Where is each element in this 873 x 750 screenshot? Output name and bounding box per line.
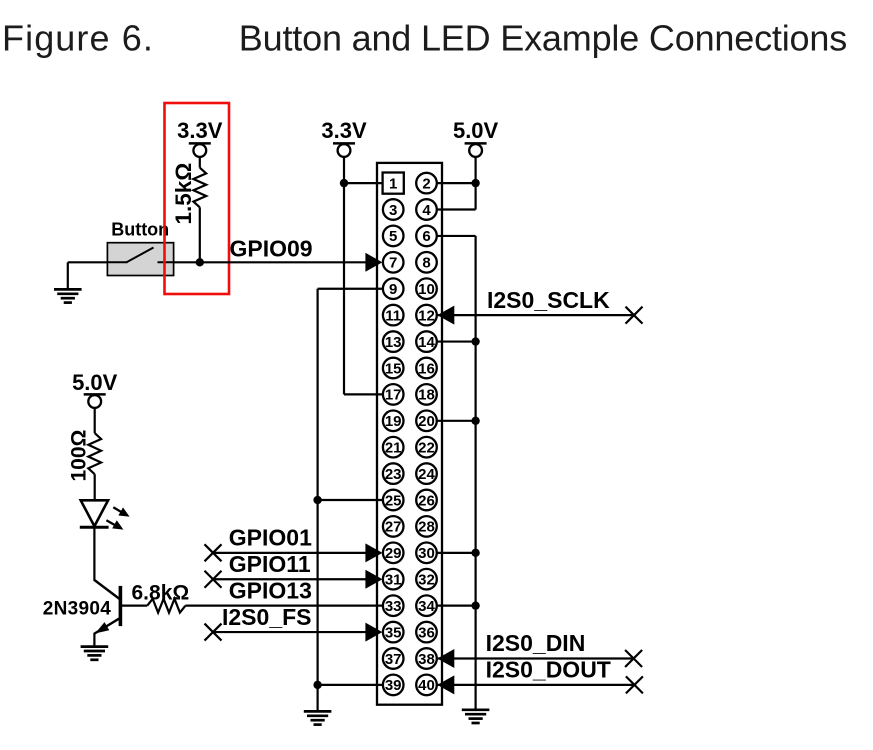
- svg-text:30: 30: [418, 545, 435, 562]
- svg-text:GPIO09: GPIO09: [230, 236, 313, 262]
- ground (right rail): [462, 708, 490, 711]
- svg-text:2N3904: 2N3904: [43, 598, 111, 619]
- svg-text:7: 7: [389, 255, 397, 272]
- svg-text:14: 14: [418, 334, 435, 351]
- junction pin14: [471, 337, 479, 345]
- pin 13: [383, 331, 404, 352]
- junction pin20: [471, 417, 479, 425]
- svg-text:34: 34: [418, 598, 435, 615]
- pin 31: [383, 569, 404, 590]
- wire left ground rail (pins 9,25,39): [318, 288, 384, 290]
- net I2S0_DOUT to pin 40: [438, 684, 635, 686]
- svg-text:4: 4: [422, 202, 431, 219]
- pin 24: [416, 463, 437, 484]
- wire R2 to LED: [94, 474, 96, 500]
- svg-text:100Ω: 100Ω: [67, 430, 90, 482]
- pin 36: [416, 622, 437, 643]
- wire 3.3V to R1: [199, 157, 201, 168]
- svg-text:33: 33: [385, 598, 402, 615]
- pin 38: [416, 648, 437, 669]
- junction node GPIO09: [196, 258, 204, 266]
- svg-text:6.8kΩ: 6.8kΩ: [132, 581, 190, 604]
- pin 11: [383, 305, 404, 326]
- pin 32: [416, 569, 437, 590]
- pin 29: [383, 543, 404, 564]
- svg-text:3.3V: 3.3V: [321, 118, 367, 143]
- LED D1: [81, 500, 108, 526]
- svg-text:18: 18: [418, 387, 435, 404]
- wire right ground rail (pins 6,14,20,30,34): [436, 235, 476, 237]
- wire net GPIO09 to pin 7: [174, 261, 367, 263]
- svg-text:3.3V: 3.3V: [177, 118, 223, 143]
- svg-text:23: 23: [385, 466, 402, 483]
- pin 16: [416, 358, 437, 379]
- resistor R1 1.5k: [193, 168, 206, 208]
- wire 5.0V rail (pins 2,4): [475, 157, 477, 210]
- header J1 frame: [377, 163, 442, 705]
- highlight box (red) around pull-up: [165, 103, 230, 294]
- svg-text:3: 3: [389, 202, 397, 219]
- pin 26: [416, 490, 437, 511]
- wire base/R3 to pin 33: [185, 605, 383, 607]
- svg-text:I2S0_SCLK: I2S0_SCLK: [487, 287, 610, 313]
- wire 5.0V to R2: [94, 408, 96, 433]
- svg-text:Figure 6.: Figure 6.: [2, 18, 154, 59]
- svg-text:35: 35: [385, 624, 402, 641]
- pin 28: [416, 516, 437, 537]
- ground (left rail): [304, 710, 332, 713]
- svg-text:36: 36: [418, 624, 435, 641]
- pin 2: [416, 173, 437, 194]
- transistor Q1: [94, 580, 119, 599]
- svg-text:8: 8: [422, 255, 430, 272]
- net I2S0_DIN to pin 38: [438, 657, 634, 659]
- junction pin30: [471, 549, 479, 557]
- svg-text:Button: Button: [111, 220, 169, 240]
- pin 40: [416, 675, 437, 696]
- pin 17: [383, 384, 404, 405]
- pin 10: [416, 278, 437, 299]
- pin 1: [383, 173, 404, 194]
- wire emitter to ground: [93, 633, 95, 647]
- pin 9: [383, 278, 404, 299]
- svg-text:9: 9: [389, 281, 397, 298]
- pin 19: [383, 411, 404, 432]
- svg-text:27: 27: [385, 519, 402, 536]
- svg-text:19: 19: [385, 413, 402, 430]
- svg-text:5.0V: 5.0V: [72, 370, 118, 395]
- svg-text:I2S0_DIN: I2S0_DIN: [486, 630, 586, 656]
- pin 23: [383, 463, 404, 484]
- svg-text:5: 5: [389, 228, 397, 245]
- svg-text:25: 25: [385, 492, 402, 509]
- net I2S0_FS to pin 35: [213, 631, 367, 633]
- net I2S0_SCLK to pin 12: [438, 314, 635, 316]
- svg-text:20: 20: [418, 413, 435, 430]
- svg-text:39: 39: [385, 677, 402, 694]
- svg-text:GPIO11: GPIO11: [229, 551, 311, 577]
- pin 4: [416, 199, 437, 220]
- pin 34: [416, 595, 437, 616]
- pin 14: [416, 331, 437, 352]
- svg-text:32: 32: [418, 572, 435, 589]
- svg-text:1: 1: [389, 175, 397, 192]
- svg-text:38: 38: [418, 651, 435, 668]
- svg-text:6: 6: [422, 228, 430, 245]
- ground (button): [54, 288, 82, 291]
- svg-text:29: 29: [385, 545, 402, 562]
- wire R1 to node: [199, 207, 201, 262]
- svg-text:31: 31: [385, 572, 402, 589]
- pin 30: [416, 543, 437, 564]
- pin 6: [416, 226, 437, 247]
- svg-text:GPIO01: GPIO01: [229, 525, 312, 551]
- LED light arrows: [113, 507, 121, 512]
- svg-text:10: 10: [418, 281, 435, 298]
- pin 18: [416, 384, 437, 405]
- svg-text:I2S0_DOUT: I2S0_DOUT: [486, 656, 611, 682]
- junction 3.3V/pin1: [340, 179, 348, 187]
- svg-text:2: 2: [422, 175, 430, 192]
- pin 8: [416, 252, 437, 273]
- net GPIO11 to pin 31: [213, 578, 367, 580]
- svg-text:1.5kΩ: 1.5kΩ: [171, 163, 196, 225]
- svg-text:17: 17: [385, 387, 402, 404]
- svg-text:28: 28: [418, 519, 435, 536]
- net GPIO01 to pin 29: [213, 552, 367, 554]
- pin 15: [383, 358, 404, 379]
- pin 39: [383, 675, 404, 696]
- pin 33: [383, 595, 404, 616]
- resistor R3 6.8k: [147, 599, 185, 613]
- pin 25: [383, 490, 404, 511]
- button S1: [107, 243, 173, 276]
- pin 5: [383, 226, 404, 247]
- pin 20: [416, 411, 437, 432]
- svg-text:26: 26: [418, 492, 435, 509]
- pin 27: [383, 516, 404, 537]
- svg-text:Button and LED Example Connect: Button and LED Example Connections: [239, 18, 847, 59]
- svg-text:22: 22: [418, 440, 435, 457]
- svg-text:37: 37: [385, 651, 402, 668]
- pin 3: [383, 199, 404, 220]
- resistor R2 100: [88, 433, 101, 474]
- junction 5.0V/pin2: [471, 179, 479, 187]
- arrowhead into pin 7: [365, 253, 382, 272]
- pin 21: [383, 437, 404, 458]
- svg-text:11: 11: [385, 307, 401, 324]
- svg-text:12: 12: [418, 307, 435, 324]
- wire LED to collector: [93, 527, 95, 581]
- junction pin39: [313, 681, 321, 689]
- ground (transistor): [81, 645, 109, 648]
- pin 7: [383, 252, 404, 273]
- svg-text:40: 40: [418, 677, 435, 694]
- pin 22: [416, 437, 437, 458]
- svg-text:GPIO13: GPIO13: [229, 577, 312, 603]
- pin 35: [383, 622, 404, 643]
- junction pin25: [313, 496, 321, 504]
- pin 37: [383, 648, 404, 669]
- svg-text:I2S0_FS: I2S0_FS: [222, 604, 312, 630]
- junction pin34: [471, 601, 479, 609]
- svg-text:21: 21: [385, 440, 402, 457]
- svg-text:24: 24: [418, 466, 435, 483]
- wire button to ground: [68, 261, 108, 263]
- svg-text:5.0V: 5.0V: [453, 118, 499, 143]
- wire 3.3V rail (pins 1,17): [343, 157, 345, 395]
- svg-text:13: 13: [385, 334, 402, 351]
- svg-text:15: 15: [385, 360, 402, 377]
- svg-text:16: 16: [418, 360, 435, 377]
- pin 12: [416, 305, 437, 326]
